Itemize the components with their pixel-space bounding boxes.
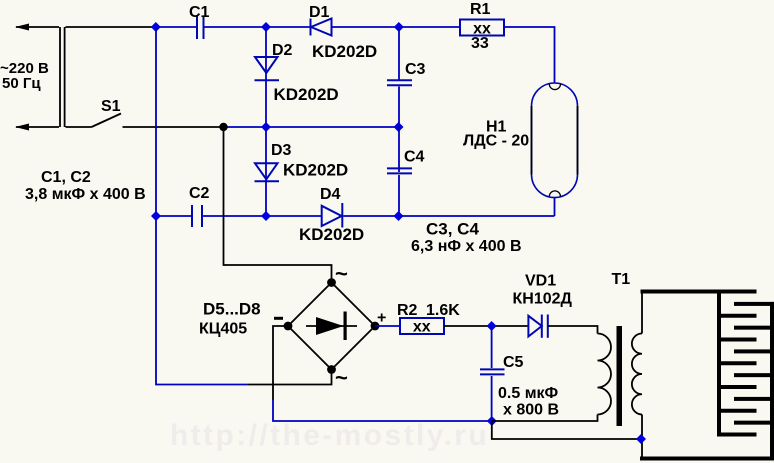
wire xyxy=(203,215,322,217)
svg-text:C4: C4 xyxy=(404,149,425,166)
svg-text:3,8 мкФ х 400 В: 3,8 мкФ х 400 В xyxy=(25,186,146,203)
wire: bridge minus to bottom rail xyxy=(273,326,492,421)
wire xyxy=(399,26,460,28)
electrode comb right tooth 1 xyxy=(734,302,774,306)
node: C5 bottom junction xyxy=(487,416,497,426)
node: third row at C column xyxy=(394,211,404,221)
electrode comb right tooth 5 xyxy=(734,397,774,401)
svg-text:D1: D1 xyxy=(309,4,330,21)
svg-text:33: 33 xyxy=(471,35,489,52)
resistor R2 xyxy=(400,318,444,334)
wire xyxy=(332,26,400,28)
wire: bottom rail to primary xyxy=(492,415,598,422)
wire: R1 to lamp top xyxy=(504,27,555,83)
svg-text:KD202D: KD202D xyxy=(274,85,339,104)
electrode comb right tooth 3 xyxy=(734,349,774,353)
wire: third row xyxy=(156,215,191,217)
wire: bottom row to switch xyxy=(66,126,92,128)
svg-text:~: ~ xyxy=(335,365,348,390)
capacitor C3 xyxy=(387,80,412,85)
svg-text:х 800 В: х 800 В xyxy=(503,402,559,419)
capacitor C1 xyxy=(197,17,204,40)
svg-text:S1: S1 xyxy=(101,98,121,115)
svg-text:C1: C1 xyxy=(189,4,210,21)
electrode comb left tooth 3 xyxy=(717,338,757,342)
svg-text:D2: D2 xyxy=(272,42,293,59)
wire: top row blue xyxy=(157,26,196,28)
wire: second row blue xyxy=(224,126,400,128)
wire: switch to node, black xyxy=(123,126,224,128)
node: bridge bottom vertex xyxy=(327,365,336,374)
wire: C5 junction to secondary junction xyxy=(492,421,641,439)
diode D2 xyxy=(255,57,280,80)
svg-text:0.5 мкФ: 0.5 мкФ xyxy=(498,385,559,402)
svg-text:http://the-mostly.ru: http://the-mostly.ru xyxy=(170,419,489,452)
transformer T1 core xyxy=(617,326,623,426)
wire: R2 to VD1 xyxy=(444,325,528,327)
diode D4 xyxy=(322,203,343,228)
node: third row at left rail xyxy=(151,211,161,221)
node: bridge top vertex xyxy=(327,278,336,287)
wire: bottom AC lead with arrow xyxy=(15,124,59,131)
bridge rectifier D5...D8 xyxy=(288,283,375,370)
lamp electrode top xyxy=(549,84,560,90)
svg-text:C2: C2 xyxy=(189,185,210,202)
wire: third row to lamp bottom xyxy=(343,198,554,217)
node: top junction at D2 column xyxy=(261,22,271,32)
wire: lower rail black part to bridge xyxy=(248,370,332,385)
svg-text:~: ~ xyxy=(335,261,348,286)
wire: secondary bottom lead xyxy=(641,415,643,457)
wire: D2/D3 column xyxy=(265,27,267,216)
electrode comb right tooth 6 xyxy=(734,421,774,425)
svg-text:C5: C5 xyxy=(503,354,524,371)
diode D1 xyxy=(311,19,332,36)
mains plug double bars xyxy=(60,27,65,127)
svg-text:KD202D: KD202D xyxy=(312,42,377,61)
node: top junction at left vertical xyxy=(151,22,161,32)
transformer T1 primary winding xyxy=(598,334,612,415)
svg-text:+: + xyxy=(377,310,386,327)
lamp electrode bottom xyxy=(549,191,560,197)
node: bridge left vertex xyxy=(284,322,293,331)
svg-text:D3: D3 xyxy=(271,142,292,159)
node: third row at D column xyxy=(261,211,271,221)
transformer T1 secondary winding xyxy=(632,334,642,415)
svg-text:6,3 нФ х 400 В: 6,3 нФ х 400 В xyxy=(411,238,522,255)
dinistor VD1 xyxy=(528,315,547,338)
wire: left vertical rail xyxy=(156,27,248,385)
electrode comb left tooth 7 xyxy=(717,433,757,437)
svg-text:50 Гц: 50 Гц xyxy=(2,75,41,92)
electrode comb bottom bar xyxy=(640,457,774,461)
svg-text:R1: R1 xyxy=(470,1,491,18)
electrode comb right spine xyxy=(770,302,774,461)
wire: S1 node to bridge top xyxy=(224,127,332,283)
svg-text:ЛДС - 20: ЛДС - 20 xyxy=(463,133,529,150)
node: C5 top junction xyxy=(487,321,497,331)
wire: top row black segment xyxy=(66,26,158,28)
wire: top AC lead with arrow xyxy=(15,24,59,31)
svg-text:КЦ405: КЦ405 xyxy=(199,321,247,338)
node: top junction at C3 column xyxy=(394,22,404,32)
wire xyxy=(205,26,311,28)
diode D3 xyxy=(255,163,280,181)
resistor R1 xyxy=(460,20,504,36)
node: switch node xyxy=(219,123,227,131)
svg-text:С3, С4: С3, С4 xyxy=(426,220,479,239)
wire: bridge plus to R2 xyxy=(375,325,400,327)
svg-text:C1, C2: C1, C2 xyxy=(41,169,91,186)
wire: C3/C4 column xyxy=(398,27,400,216)
capacitor C5 xyxy=(480,326,505,421)
electrode comb left tooth 4 xyxy=(717,361,757,365)
node: bridge right vertex xyxy=(371,322,380,331)
node: secondary bottom junction xyxy=(636,434,646,444)
electrode comb left spine xyxy=(717,290,721,437)
svg-text:xx: xx xyxy=(413,319,431,336)
svg-text:KD202D: KD202D xyxy=(299,225,364,244)
svg-text:R2: R2 xyxy=(397,302,418,319)
label minus xyxy=(274,317,283,320)
capacitor C4 xyxy=(387,168,412,173)
electrode comb left tooth 5 xyxy=(717,385,757,389)
svg-text:1.6K: 1.6K xyxy=(426,302,460,319)
svg-text:КН102Д: КН102Д xyxy=(513,291,573,308)
electrode comb left tooth 6 xyxy=(717,409,757,413)
svg-text:D4: D4 xyxy=(320,186,341,203)
wire: secondary top lead xyxy=(641,291,643,334)
svg-text:VD1: VD1 xyxy=(525,273,556,290)
node: second row at D column xyxy=(261,122,271,132)
electrode comb left tooth 2 xyxy=(717,314,757,318)
svg-text:KD202D: KD202D xyxy=(283,161,348,180)
electrode comb top bar xyxy=(641,290,757,294)
electrode comb right tooth 4 xyxy=(734,373,774,377)
svg-text:T1: T1 xyxy=(612,271,631,288)
node: second row at C column xyxy=(394,122,404,132)
electrode comb right tooth 2 xyxy=(734,326,774,330)
wire: VD1 to transformer primary xyxy=(548,326,598,334)
svg-text:C3: C3 xyxy=(405,61,426,78)
svg-text:D5...D8: D5...D8 xyxy=(203,300,261,319)
lamp H1 envelope xyxy=(532,83,578,198)
switch S1 blade xyxy=(92,114,122,128)
capacitor C2 xyxy=(192,205,202,227)
